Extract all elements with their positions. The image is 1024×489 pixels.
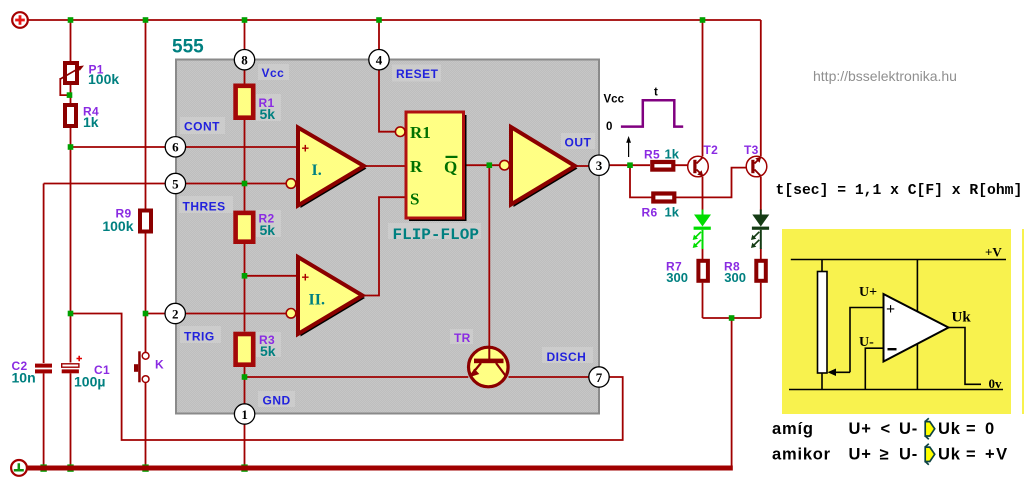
svg-text:R: R	[410, 157, 423, 176]
svg-text:Uk: Uk	[938, 420, 961, 438]
svg-text:http://bsselektronika.hu: http://bsselektronika.hu	[813, 68, 957, 84]
svg-text:t: t	[654, 87, 658, 99]
svg-text:100k: 100k	[102, 218, 133, 234]
svg-text:RESET: RESET	[396, 67, 439, 81]
svg-text:+: +	[302, 141, 310, 156]
svg-text:555: 555	[172, 37, 204, 58]
svg-text:300: 300	[666, 270, 688, 285]
svg-text:300: 300	[724, 270, 746, 285]
svg-text:I.: I.	[312, 162, 322, 179]
svg-text:≥: ≥	[880, 446, 890, 464]
svg-text:Uk: Uk	[938, 446, 961, 464]
svg-text:Uk: Uk	[952, 310, 972, 326]
svg-text:CONT: CONT	[184, 120, 220, 134]
svg-text:5k: 5k	[260, 106, 276, 122]
svg-text:4: 4	[376, 53, 383, 68]
svg-text:+: +	[886, 301, 895, 318]
svg-text:t[sec] = 1,1 x C[F] x R[ohm]: t[sec] = 1,1 x C[F] x R[ohm]	[776, 183, 1023, 199]
svg-text:II.: II.	[309, 292, 325, 309]
svg-text:amikor: amikor	[772, 446, 831, 464]
svg-text:0: 0	[985, 420, 995, 438]
svg-text:U+: U+	[849, 420, 872, 438]
svg-text:100µ: 100µ	[74, 374, 105, 390]
svg-text:U-: U-	[899, 446, 918, 464]
svg-text:10n: 10n	[12, 370, 36, 386]
svg-text:S: S	[410, 190, 419, 209]
svg-text:2: 2	[172, 306, 179, 321]
svg-text:TRIG: TRIG	[184, 330, 215, 344]
svg-text:U-: U-	[859, 335, 874, 350]
svg-text:Vcc: Vcc	[604, 94, 625, 106]
svg-text:Q: Q	[444, 158, 457, 177]
svg-text:3: 3	[596, 158, 603, 173]
svg-text:GND: GND	[263, 394, 291, 408]
svg-text:+V: +V	[985, 245, 1002, 260]
svg-text:R6: R6	[642, 206, 658, 220]
svg-text:TR: TR	[454, 331, 471, 345]
svg-text:K: K	[155, 358, 164, 372]
svg-text:1k: 1k	[665, 205, 680, 220]
svg-text:U-: U-	[899, 420, 918, 438]
svg-text:+: +	[302, 270, 310, 285]
svg-text:=: =	[966, 446, 976, 464]
svg-text:U+: U+	[849, 446, 872, 464]
svg-text:T3: T3	[744, 143, 759, 157]
svg-text:0v: 0v	[989, 376, 1003, 391]
svg-text:amíg: amíg	[772, 420, 814, 438]
svg-text:5k: 5k	[260, 222, 276, 238]
svg-text:U+: U+	[859, 285, 877, 300]
svg-text:=: =	[966, 420, 976, 438]
svg-text:100k: 100k	[88, 71, 119, 87]
svg-text:0: 0	[606, 121, 612, 133]
svg-text:+V: +V	[985, 446, 1009, 464]
svg-text:7: 7	[596, 370, 603, 385]
svg-text:Vcc: Vcc	[262, 66, 285, 80]
svg-text:<: <	[881, 420, 891, 438]
svg-text:1k: 1k	[665, 147, 680, 162]
svg-text:THRES: THRES	[183, 200, 226, 214]
svg-text:1k: 1k	[83, 114, 99, 130]
svg-text:R1: R1	[410, 123, 431, 142]
svg-text:FLIP-FLOP: FLIP-FLOP	[393, 226, 479, 244]
svg-text:T2: T2	[704, 143, 719, 157]
svg-text:6: 6	[172, 140, 179, 155]
svg-text:5: 5	[172, 176, 179, 191]
svg-text:DISCH: DISCH	[547, 350, 587, 364]
svg-text:R5: R5	[644, 148, 660, 162]
svg-text:5k: 5k	[260, 343, 276, 359]
svg-text:1: 1	[241, 407, 248, 422]
svg-text:OUT: OUT	[565, 136, 592, 150]
svg-text:8: 8	[241, 53, 248, 68]
